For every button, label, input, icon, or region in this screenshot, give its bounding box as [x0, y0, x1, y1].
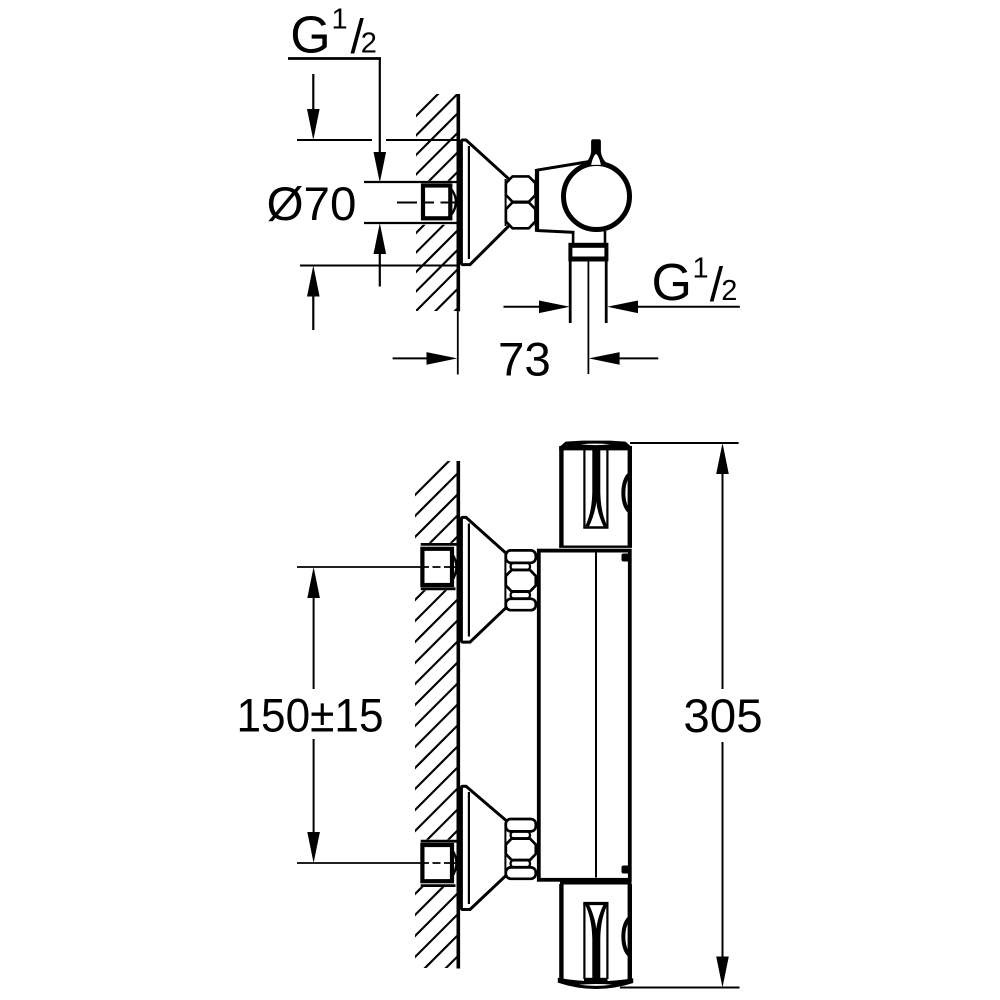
wall nipple square nut (top view) — [452, 190, 456, 214]
outlet neck (top view) — [572, 231, 575, 244]
white mask behind wall nipple (top view) — [410, 181, 457, 225]
bottom cap (flow handle, front view) — [560, 882, 632, 885]
outlet pipe (top view) — [569, 262, 572, 324]
nipple centerline (dash-dot) — [397, 202, 460, 204]
bottom escutcheon (front view) — [461, 786, 510, 909]
svg-text:305: 305 — [683, 690, 762, 743]
top S-union square nut (front view) — [421, 543, 458, 546]
bottom cap grip — [583, 902, 608, 905]
extension line bottom — [620, 987, 740, 989]
svg-text:1: 1 — [693, 252, 709, 284]
escutcheon inner edge line — [468, 146, 470, 259]
top cap grip — [583, 450, 585, 528]
top cap (temperature handle, front view) — [559, 446, 563, 547]
bottom union hex nut (front view) — [506, 819, 536, 831]
svg-text:G: G — [290, 7, 330, 65]
extension line top — [630, 442, 739, 444]
outlet collar (top view) — [568, 243, 608, 248]
valve body trapezoid (top view) — [537, 161, 593, 170]
Ø70 up arrow — [312, 295, 314, 330]
extension line bottom — [297, 862, 421, 864]
union hex nut (top view) — [506, 176, 536, 201]
escutcheon (top view) — [461, 140, 510, 265]
bottom cap black bottom band — [558, 978, 633, 989]
wall hatching (front view) — [410, 445, 465, 1000]
dimension line with arrows — [722, 473, 724, 689]
svg-text:2: 2 — [361, 28, 377, 60]
thread extension line bottom — [364, 222, 457, 224]
body panel line — [595, 550, 597, 878]
wall face line (front view) — [456, 461, 460, 969]
svg-text:1: 1 — [332, 4, 348, 36]
dimension line with arrows — [313, 597, 315, 689]
G 1/2 label underline — [288, 57, 381, 60]
Ø70 extension line top — [297, 139, 372, 141]
wall face line (top view) — [456, 94, 460, 311]
extension line top (also centerline lead) — [297, 566, 421, 568]
bottom cap crescent — [623, 918, 629, 955]
svg-text:150±15: 150±15 — [237, 690, 384, 743]
G 1/2 thread up arrow — [379, 253, 381, 287]
temperature nub (top view) — [586, 139, 607, 165]
pipe centerline — [587, 262, 589, 375]
Ø70 extension line bottom — [300, 265, 457, 267]
bottom S-union square nut (front view) — [421, 840, 458, 843]
svg-text:2: 2 — [721, 275, 737, 307]
svg-text:73: 73 — [498, 334, 551, 387]
top union hex nut (front view) — [506, 550, 536, 562]
top cap crescent — [623, 474, 629, 511]
body clip top right — [622, 554, 631, 562]
svg-text:G: G — [652, 254, 692, 312]
top escutcheon (front view) — [461, 517, 510, 642]
wall extension line for 73 — [457, 311, 459, 374]
G 1/2 leader line with arrow — [379, 59, 381, 155]
body clip bottom right — [622, 866, 631, 874]
white mask behind bottom S-union nut — [410, 840, 457, 888]
white mask behind top S-union nut — [410, 543, 457, 591]
thermostat knob circle (top view) — [564, 164, 630, 230]
svg-text:Ø70: Ø70 — [267, 178, 357, 231]
wall hatching (top view) — [412, 70, 462, 354]
top cap black band — [559, 441, 632, 451]
Ø70 down arrow — [312, 74, 314, 112]
thread extension line top — [364, 181, 457, 183]
valve body (front view) — [539, 551, 630, 880]
